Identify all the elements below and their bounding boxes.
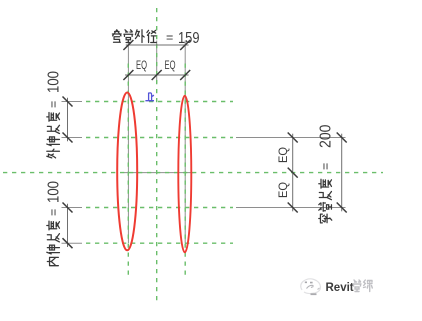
tick D5 mid bbox=[288, 168, 298, 178]
tick D6 top bbox=[337, 133, 347, 143]
witness line right dims bottom bbox=[236, 207, 346, 209]
witness line left of dim 外伸长度 top bbox=[62, 101, 83, 103]
tick D5 bottom bbox=[288, 203, 298, 213]
tick D4 bottom bbox=[63, 238, 73, 248]
witness line left of dim 外伸长度 bottom bbox=[62, 137, 83, 139]
svg-text:EQ: EQ bbox=[276, 182, 290, 198]
tick D5 top bbox=[288, 133, 298, 143]
tick D6 bottom bbox=[337, 203, 347, 213]
dimension line EQ right bbox=[292, 134, 294, 212]
svg-text:Revit: Revit bbox=[326, 282, 354, 294]
watermark logo sketch bbox=[301, 279, 321, 294]
dimension lines bbox=[68, 45, 342, 247]
svg-text:100: 100 bbox=[46, 71, 63, 93]
dimension line 内伸长度=100 bbox=[67, 204, 69, 247]
reference plane horizontal y=101.5 bbox=[86, 101, 233, 103]
witness line vertical left (x=128.4) bbox=[127, 41, 129, 244]
tick D2 left bbox=[123, 70, 133, 80]
dimension line 外伸长度=100 bbox=[67, 98, 69, 142]
witness line right dims top bbox=[236, 137, 346, 139]
svg-text:=: = bbox=[166, 31, 173, 45]
dimension line 穿管长度=200 bbox=[341, 134, 343, 212]
tick D2 right bbox=[180, 70, 190, 80]
reference plane vertical center x=156.7 bbox=[156, 8, 158, 301]
svg-text:EQ: EQ bbox=[276, 147, 290, 163]
svg-text:200: 200 bbox=[318, 124, 335, 148]
svg-text:=: = bbox=[319, 163, 333, 170]
svg-text:EQ: EQ bbox=[136, 58, 147, 72]
gray model lines bbox=[62, 41, 346, 244]
dimension line 套管外径=159 bbox=[126, 44, 189, 46]
svg-text:=: = bbox=[47, 209, 61, 216]
tick D4 top bbox=[63, 203, 73, 213]
text 套管外径 = 159 bbox=[112, 30, 156, 43]
reference plane vertical x=185.2 bbox=[184, 64, 186, 279]
svg-text:100: 100 bbox=[46, 181, 63, 203]
red ellipse right (sleeve circle) bbox=[178, 96, 191, 253]
tick D1 right bbox=[180, 40, 190, 50]
tick D3 bottom bbox=[63, 133, 73, 143]
svg-text:159: 159 bbox=[178, 30, 200, 47]
tick marks bbox=[63, 40, 347, 248]
witness line vertical center (x=156.7) bbox=[156, 41, 158, 84]
dimension line EQ top bbox=[125, 74, 189, 76]
svg-text:=: = bbox=[47, 101, 61, 108]
text 穿管长度 = 200 (rotated) bbox=[318, 124, 335, 222]
witness line left of dim 内伸长度 top bbox=[62, 207, 83, 209]
tick D2 mid bbox=[152, 70, 162, 80]
reference plane horizontal y=243.2 bbox=[86, 242, 233, 244]
text 内伸长度 = 100 (rotated) bbox=[46, 181, 63, 266]
text 外伸长度 = 100 (rotated) bbox=[46, 71, 63, 158]
reference plane vertical x=128.3 bbox=[127, 64, 129, 280]
reference plane horizontal y=137.5 bbox=[86, 137, 233, 139]
tick D1 left bbox=[123, 40, 133, 50]
tick D3 top bbox=[63, 97, 73, 107]
reference plane horizontal y=207.5 bbox=[86, 207, 233, 209]
witness line vertical right (x=185.2) bbox=[184, 41, 186, 244]
witness line left of dim 内伸长度 bottom bbox=[62, 242, 83, 244]
svg-text:EQ: EQ bbox=[165, 58, 176, 72]
sleeve axis horizontal bbox=[124, 172, 194, 174]
reference plane horizontal center y=172.6 bbox=[3, 172, 383, 174]
red ellipse left (sleeve circle) bbox=[117, 92, 137, 250]
blue handle glyph bbox=[145, 93, 154, 101]
